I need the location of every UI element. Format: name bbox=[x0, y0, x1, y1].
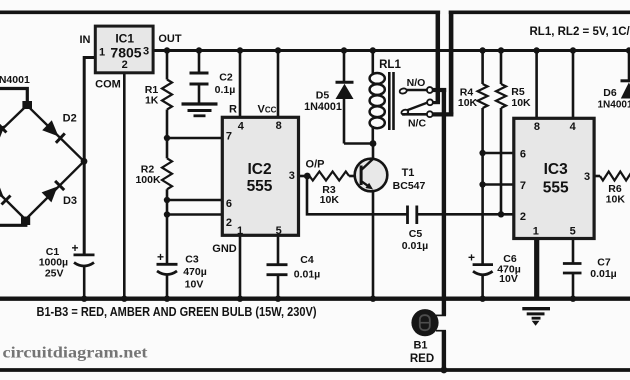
svg-text:D2: D2 bbox=[63, 113, 77, 125]
svg-text:10K: 10K bbox=[511, 97, 531, 109]
svg-text:R: R bbox=[229, 104, 237, 116]
svg-text:3: 3 bbox=[289, 170, 295, 182]
svg-text:T1: T1 bbox=[402, 167, 415, 179]
svg-text:IC2: IC2 bbox=[247, 161, 271, 178]
svg-text:OUT: OUT bbox=[158, 33, 182, 45]
svg-text:7: 7 bbox=[520, 180, 526, 192]
svg-text:10K: 10K bbox=[458, 97, 478, 109]
svg-text:1: 1 bbox=[237, 225, 243, 237]
svg-text:10V: 10V bbox=[499, 273, 518, 285]
svg-text:+: + bbox=[157, 250, 164, 264]
svg-text:IC3: IC3 bbox=[544, 161, 569, 178]
svg-text:RL1, RL2 = 5V, 1C/O: RL1, RL2 = 5V, 1C/O bbox=[530, 26, 630, 38]
svg-text:100K: 100K bbox=[135, 174, 161, 186]
svg-text:RL1: RL1 bbox=[379, 59, 401, 71]
svg-text:2: 2 bbox=[520, 211, 526, 223]
svg-text:IN: IN bbox=[80, 34, 91, 46]
svg-text:1N4001: 1N4001 bbox=[598, 100, 630, 111]
svg-text:circuitdiagram.net: circuitdiagram.net bbox=[3, 345, 149, 362]
svg-text:25V: 25V bbox=[45, 268, 64, 280]
svg-text:+: + bbox=[468, 251, 475, 265]
svg-text:555: 555 bbox=[247, 178, 273, 195]
svg-text:1K: 1K bbox=[145, 95, 159, 107]
svg-text:IC1: IC1 bbox=[115, 31, 134, 45]
svg-text:D3: D3 bbox=[63, 195, 77, 207]
svg-text:6: 6 bbox=[226, 198, 232, 210]
svg-text:10V: 10V bbox=[185, 279, 204, 291]
svg-text:D6: D6 bbox=[603, 87, 617, 99]
svg-text:2: 2 bbox=[226, 217, 232, 229]
svg-text:0.01µ: 0.01µ bbox=[590, 268, 617, 280]
svg-text:1: 1 bbox=[99, 47, 105, 59]
svg-text:4: 4 bbox=[238, 121, 245, 133]
svg-text:2: 2 bbox=[122, 59, 128, 71]
svg-text:8: 8 bbox=[276, 120, 282, 132]
svg-text:C3: C3 bbox=[185, 254, 199, 266]
svg-text:3: 3 bbox=[584, 171, 590, 183]
svg-text:C7: C7 bbox=[597, 257, 611, 269]
svg-text:N/C: N/C bbox=[408, 118, 427, 130]
svg-text:0.1µ: 0.1µ bbox=[215, 84, 236, 96]
svg-text:10K: 10K bbox=[606, 194, 626, 206]
svg-text:+: + bbox=[71, 241, 78, 255]
svg-text:5: 5 bbox=[276, 225, 282, 237]
svg-text:10K: 10K bbox=[320, 194, 340, 206]
svg-text:0.01µ: 0.01µ bbox=[402, 240, 429, 252]
svg-text:C5: C5 bbox=[409, 228, 423, 240]
svg-text:RED: RED bbox=[410, 353, 434, 365]
svg-text:VCC: VCC bbox=[258, 104, 277, 116]
svg-text:COM: COM bbox=[95, 79, 121, 91]
svg-text:1: 1 bbox=[533, 226, 539, 238]
svg-text:6: 6 bbox=[520, 149, 526, 161]
svg-text:8: 8 bbox=[534, 121, 540, 133]
svg-text:D5: D5 bbox=[316, 90, 330, 102]
svg-text:3: 3 bbox=[143, 46, 149, 58]
svg-text:4: 4 bbox=[570, 121, 577, 133]
svg-text:7: 7 bbox=[226, 131, 232, 143]
svg-text:B1: B1 bbox=[413, 340, 427, 352]
svg-text:C2: C2 bbox=[219, 72, 233, 84]
svg-text:1N4001: 1N4001 bbox=[304, 101, 342, 113]
svg-text:1N4001: 1N4001 bbox=[0, 74, 30, 86]
svg-text:5: 5 bbox=[570, 226, 576, 238]
svg-text:555: 555 bbox=[543, 180, 569, 197]
svg-text:O/P: O/P bbox=[306, 159, 325, 171]
svg-text:BC547: BC547 bbox=[393, 180, 426, 192]
svg-text:0.01µ: 0.01µ bbox=[294, 269, 321, 281]
svg-text:C4: C4 bbox=[300, 254, 314, 266]
svg-text:GND: GND bbox=[212, 243, 237, 255]
svg-text:470µ: 470µ bbox=[183, 266, 207, 278]
svg-text:N/O: N/O bbox=[407, 77, 426, 89]
svg-text:B1-B3 = RED, AMBER AND GREEN B: B1-B3 = RED, AMBER AND GREEN BULB (15W, … bbox=[37, 304, 317, 319]
